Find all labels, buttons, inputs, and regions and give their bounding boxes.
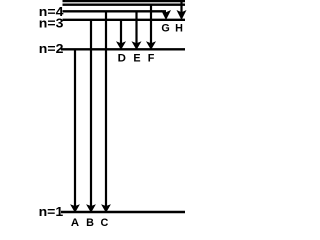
svg-text:E: E [133, 52, 140, 64]
svg-text:G: G [161, 23, 169, 35]
level line n=6 (top) [63, 0, 186, 2]
arrow A (n=2 to n=1) [70, 49, 80, 213]
svg-text:F: F [148, 52, 155, 64]
svg-text:A: A [71, 217, 79, 227]
level line n=5 [63, 3, 186, 5]
svg-text:C: C [100, 217, 108, 227]
svg-text:D: D [118, 52, 126, 64]
arrow E (n=4 to n=2) [132, 11, 142, 50]
level line n=1 [61, 211, 185, 213]
svg-text:n=3: n=3 [39, 15, 64, 30]
arrow B (n=3 to n=1) [86, 20, 96, 213]
arrow F (n=5 to n=2) [146, 5, 156, 50]
arrow G (n=4 to n=3) [161, 10, 171, 20]
svg-text:B: B [86, 217, 94, 227]
svg-text:n=2: n=2 [39, 41, 64, 56]
arrow D (n=3 to n=2) [116, 20, 126, 50]
level line n=2 [61, 48, 185, 50]
level line n=4 [63, 10, 167, 12]
level line n=3 [63, 19, 186, 21]
arrow C (n=4 to n=1) [101, 11, 111, 213]
svg-text:n=1: n=1 [39, 204, 64, 219]
arrow H (n=6 to n=3) [177, 1, 187, 20]
svg-text:H: H [175, 23, 183, 35]
